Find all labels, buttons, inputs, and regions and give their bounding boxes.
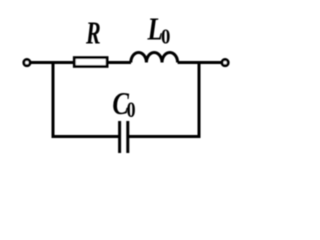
svg-text:0: 0	[161, 26, 170, 49]
svg-text:R: R	[85, 15, 101, 50]
svg-text:0: 0	[127, 99, 136, 123]
